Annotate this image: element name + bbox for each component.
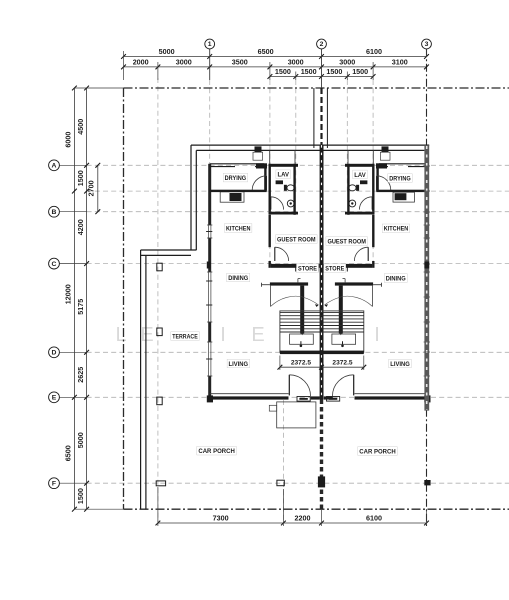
svg-text:2200: 2200 (295, 513, 311, 522)
label STORE right (324, 264, 346, 273)
party wall below front (boundary) (320, 400, 323, 510)
kitchen counter left (220, 192, 244, 202)
svg-text:12000: 12000 (64, 284, 73, 304)
svg-text:2700: 2700 (86, 180, 95, 196)
svg-text:2: 2 (320, 41, 324, 48)
svg-text:E: E (140, 324, 153, 346)
front wall corner col1 (207, 395, 213, 402)
svg-text:I: I (220, 324, 226, 346)
guest room door (367, 247, 369, 261)
label DINING right (384, 274, 407, 283)
lav east wall (347, 164, 349, 215)
drying/lav divider wall (264, 164, 266, 191)
label LIVING left (227, 359, 250, 368)
lav door (371, 197, 373, 210)
svg-text:TERRACE: TERRACE (172, 333, 198, 340)
stair up arrowhead (300, 331, 304, 335)
svg-text:3000: 3000 (176, 57, 192, 66)
svg-text:STORE: STORE (325, 266, 344, 273)
grid line column 3 dash-dot (426, 49, 428, 526)
row bubble A (49, 160, 60, 171)
row bubble C (49, 258, 60, 269)
svg-text:5000: 5000 (159, 47, 175, 56)
label STORE left (297, 264, 319, 273)
rear-left wall jog down (190, 145, 192, 250)
lav shower (349, 200, 356, 207)
label DRYING left (223, 173, 248, 182)
svg-text:KITCHEN: KITCHEN (226, 225, 251, 232)
svg-text:6100: 6100 (366, 47, 382, 56)
svg-text:KITCHEN: KITCHEN (384, 226, 409, 233)
party wall (320, 145, 324, 399)
RIGHT UNIT (mirrored) (323, 146, 390, 396)
kitchen north wall left (210, 190, 267, 192)
washing machine left (230, 193, 242, 201)
lav east wall (293, 164, 295, 215)
svg-text:I: I (374, 324, 380, 346)
main door (288, 375, 290, 396)
svg-text:4200: 4200 (76, 219, 85, 235)
column col1xC (207, 262, 211, 269)
label DRYING right (388, 174, 413, 183)
svg-text:3000: 3000 (288, 57, 304, 66)
svg-text:7300: 7300 (213, 513, 229, 522)
terrace step wall (141, 249, 197, 251)
porch column F-mid (277, 480, 284, 486)
left outer dimension line (73, 88, 75, 509)
drying north wall right (379, 163, 429, 165)
row bubble D (49, 347, 60, 358)
label CAR PORCH right (358, 447, 398, 456)
bottom dimension row (158, 522, 427, 524)
rear wall (191, 144, 429, 146)
lav shower (287, 200, 294, 207)
svg-text:B: B (52, 209, 57, 216)
lav door (270, 197, 272, 210)
terrace column mid (157, 328, 162, 336)
grid bubble 3 (422, 39, 432, 49)
front wall living right (355, 393, 425, 395)
drying door (376, 176, 378, 191)
staircase box (280, 311, 364, 352)
terrace column at C (157, 263, 162, 271)
left extension leaders (74, 87, 123, 89)
svg-text:D: D (52, 350, 57, 357)
svg-text:5000: 5000 (76, 432, 85, 448)
svg-text:2000: 2000 (133, 57, 149, 66)
lav north wall (269, 164, 299, 167)
svg-text:DRYING: DRYING (389, 175, 411, 182)
label GUEST ROOM right (326, 237, 368, 246)
svg-text:E: E (251, 324, 264, 346)
stair rail/flight bar (339, 286, 343, 334)
LEFT UNIT (252, 146, 319, 396)
svg-text:1500: 1500 (352, 67, 368, 76)
front wall corner col3 (424, 395, 430, 402)
grid bubble 1 (205, 39, 215, 49)
lav south wall at B (269, 212, 299, 215)
kitchen/guest divider wall (269, 215, 271, 247)
col1 west wall with windows (208, 164, 211, 225)
svg-text:2372.5: 2372.5 (332, 360, 353, 367)
drying/lav divider wall (376, 164, 378, 191)
svg-text:DINING: DINING (386, 276, 406, 283)
drying north wall left (210, 163, 265, 165)
drying door (265, 176, 267, 191)
store front wall thick bar (270, 282, 308, 285)
svg-text:STORE: STORE (298, 266, 317, 273)
party wall footing column at F (318, 476, 325, 487)
lav basin (360, 180, 367, 184)
stair treads (280, 311, 364, 313)
yard sink (382, 146, 389, 152)
svg-text:DRYING: DRYING (225, 175, 247, 182)
svg-text:GUEST ROOM: GUEST ROOM (277, 236, 316, 243)
porch column F-terrace (156, 481, 165, 486)
svg-text:CAR PORCH: CAR PORCH (198, 448, 235, 455)
stair up arrowhead (339, 331, 343, 335)
row bubble F (49, 478, 60, 489)
dimension 2700 A-B (97, 165, 99, 211)
terrace column at E (157, 397, 162, 405)
beam line dining (262, 284, 270, 286)
drying wash basin (376, 163, 387, 168)
lav basin (276, 180, 283, 184)
label LIVING right (389, 359, 412, 368)
store jamb step (297, 279, 299, 283)
svg-text:1500: 1500 (301, 67, 317, 76)
svg-text:A: A (52, 163, 57, 170)
svg-text:L: L (115, 324, 126, 346)
stair rail/flight bar (300, 286, 304, 334)
row bubble B (49, 206, 60, 217)
label GUEST ROOM left (276, 235, 318, 244)
yard sink (255, 146, 262, 152)
top extension lines (123, 51, 125, 80)
svg-text:CAR PORCH: CAR PORCH (359, 448, 396, 455)
svg-text:C: C (52, 261, 57, 268)
washing machine right (395, 193, 407, 200)
label LAV right (353, 170, 368, 179)
label CAR PORCH left (197, 446, 237, 455)
col3 east wall (424, 145, 429, 411)
drying wash basin (256, 163, 267, 168)
stair curve arrow (341, 296, 373, 306)
guest room south wall (323, 264, 372, 268)
svg-text:1500: 1500 (326, 67, 342, 76)
label DINING left (227, 273, 250, 282)
svg-text:LIVING: LIVING (229, 361, 249, 368)
stair curve arrow (271, 296, 303, 306)
svg-text:6500: 6500 (258, 47, 274, 56)
store door jamb ticks (295, 265, 297, 272)
lav wc (349, 185, 356, 191)
site boundary bottom (124, 508, 509, 510)
stair landing squares (290, 334, 314, 344)
front wall living left (210, 393, 289, 395)
kitchen counter right (393, 192, 414, 202)
lav west wall (269, 164, 271, 212)
left inner dimension line (86, 88, 88, 509)
kitchen/guest divider wall (372, 215, 374, 247)
svg-text:5175: 5175 (76, 299, 85, 315)
col3 wall window ticks (424, 165, 430, 167)
row bubble E (49, 392, 60, 403)
lav west wall (372, 164, 374, 212)
svg-text:LAV: LAV (354, 172, 366, 179)
site boundary top (124, 87, 509, 89)
guest room south wall (271, 264, 320, 268)
svg-text:LAV: LAV (277, 172, 289, 179)
svg-text:1: 1 (208, 41, 212, 48)
label KITCHEN right (382, 224, 410, 233)
stair dim 2372.5 left (280, 366, 364, 368)
label LAV left (276, 170, 291, 179)
beam line dining (373, 284, 381, 286)
grid row dashed lines A..F (87, 164, 509, 166)
site boundary left (123, 88, 125, 509)
lav side walls up through yard (372, 150, 374, 163)
store front wall thick bar (335, 282, 373, 285)
kitchen north wall right (376, 190, 429, 192)
label KITCHEN left (224, 224, 252, 233)
grid bubble 2 (317, 39, 327, 49)
top dimension row 3 (270, 76, 373, 78)
svg-text:6500: 6500 (64, 445, 73, 461)
lav wc (287, 185, 294, 191)
svg-text:1500: 1500 (76, 170, 85, 186)
svg-text:LIVING: LIVING (390, 361, 410, 368)
svg-text:2625: 2625 (76, 367, 85, 383)
main door (353, 375, 355, 396)
svg-text:DINING: DINING (228, 275, 248, 282)
guest room door (274, 247, 276, 261)
door threshold right (327, 397, 340, 402)
top dimension row 2 (124, 66, 427, 68)
lav north wall (345, 164, 375, 167)
svg-text:6000: 6000 (64, 132, 73, 148)
lav side walls up through yard (269, 150, 271, 163)
party wall gap walls above house (313, 88, 315, 148)
terrace left wall (140, 250, 142, 509)
svg-text:3500: 3500 (232, 57, 248, 66)
svg-text:2372.5: 2372.5 (291, 360, 312, 367)
svg-text:3100: 3100 (392, 57, 408, 66)
stair bottom wall (280, 351, 364, 355)
door threshold left (297, 397, 310, 402)
porch column F-col3 (424, 480, 430, 485)
svg-text:GUEST ROOM: GUEST ROOM (327, 238, 366, 245)
svg-text:3000: 3000 (339, 57, 355, 66)
top dimension row 1 (124, 56, 427, 58)
svg-text:1500: 1500 (76, 488, 85, 504)
svg-text:1500: 1500 (275, 67, 291, 76)
entry landing steps (277, 402, 316, 428)
svg-text:3: 3 (425, 41, 429, 48)
svg-text:6100: 6100 (366, 513, 382, 522)
lav south wall at B (345, 212, 375, 215)
svg-text:F: F (52, 480, 56, 487)
column col3xC (424, 262, 429, 269)
svg-text:E: E (52, 395, 57, 402)
grid column dashed lines (157, 78, 159, 523)
label TERRACE (171, 332, 200, 341)
store jamb step (344, 279, 346, 283)
svg-text:4500: 4500 (76, 119, 85, 135)
